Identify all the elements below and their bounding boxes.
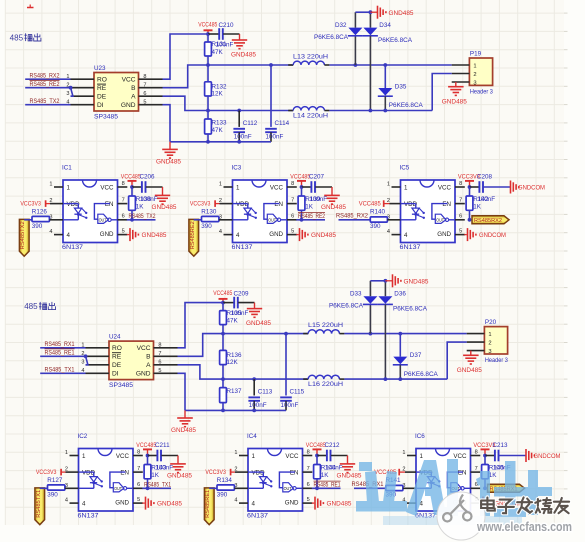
svg-text:RS485TX2: RS485TX2 [20,221,26,249]
svg-text:RS485_RX2: RS485_RX2 [30,74,61,80]
svg-text:GND485: GND485 [157,502,183,508]
junction rail/R [221,409,225,413]
transceiver U24 [81,334,177,390]
svg-text:1: 1 [49,182,52,188]
svg-text:SP3485: SP3485 [109,382,134,389]
net label RS485_TX2 [127,214,156,220]
section label 485输出 [10,33,41,42]
svg-text:7: 7 [459,197,462,203]
svg-text:47K: 47K [212,49,224,56]
svg-text:12K: 12K [227,359,239,366]
svg-text:8: 8 [122,181,125,187]
resistor R143 1K [144,456,173,491]
svg-text:VCC: VCC [137,345,151,352]
ground GND485 pin5 [296,228,336,241]
svg-text:OUT: OUT [268,218,276,223]
port RS485RE1 [204,488,217,525]
svg-text:100nF: 100nF [234,134,252,141]
svg-text:GND485: GND485 [152,205,178,211]
svg-text:VCC485: VCC485 [213,290,232,297]
optocoupler IC3 6N137 [219,165,297,252]
svg-text:VCC: VCC [116,453,130,460]
svg-text:4: 4 [49,229,52,235]
net label RS485_RE2 [25,80,70,88]
svg-text:100nF: 100nF [140,196,158,203]
wire B line left [178,334,309,357]
power VCC485 [213,290,232,305]
svg-text:2: 2 [473,72,476,78]
svg-text:RS485RE2: RS485RE2 [190,221,196,249]
TVS diode D35 P6KE6.8CA [378,63,424,112]
svg-text:7: 7 [291,197,294,203]
net label RS485_TX1 [142,482,171,488]
svg-text:1: 1 [488,332,491,338]
svg-text:OUT: OUT [99,218,107,223]
svg-text:47K: 47K [212,127,224,134]
TVS diode D36 P6KE6.8CA [378,281,428,381]
power VCC3V3 input [205,469,239,476]
wire A line right [329,110,432,112]
svg-text:D37: D37 [410,352,422,359]
wire A line left [178,365,309,379]
svg-text:8: 8 [307,449,310,455]
svg-text:VCC: VCC [270,185,284,192]
svg-text:RS485_TX2: RS485_TX2 [30,99,61,105]
svg-text:P19: P19 [470,51,482,58]
ground GND485 rail [171,410,197,434]
wire B line right [344,333,466,335]
svg-text:GND485: GND485 [156,160,182,166]
svg-text:GND: GND [437,231,451,238]
svg-text:OUT: OUT [436,218,444,223]
svg-text:4: 4 [67,232,71,239]
capacitor C212 100nF [317,442,340,461]
resistor R140 390 [370,209,392,230]
wire TVS to ground [370,279,387,283]
capacitor C209 100nF [223,290,255,317]
power VCC3V3 input [36,469,70,476]
svg-text:SP3485: SP3485 [94,114,119,121]
net label RS485_RE2 [296,213,325,220]
optocoupler IC2 6N137 [65,433,143,520]
resistor R126 390 [32,209,54,230]
svg-text:R134: R134 [217,477,233,484]
svg-text:L16 220uH: L16 220uH [308,382,343,388]
svg-text:L13 220uH: L13 220uH [293,54,328,60]
svg-text:U23: U23 [94,65,106,72]
capacitor C208 100nF [470,174,493,193]
svg-text:5: 5 [459,228,462,234]
svg-text:RS485_RE1: RS485_RE1 [314,482,342,488]
svg-text:R130: R130 [201,209,217,216]
svg-text:8: 8 [158,343,161,349]
svg-text:VCC485: VCC485 [290,174,310,181]
svg-text:VCC3V3: VCC3V3 [20,200,41,207]
svg-text:4: 4 [65,498,68,504]
capacitor C207 100nF [302,174,325,193]
svg-text:GND485: GND485 [442,100,468,106]
svg-text:6N137: 6N137 [62,244,84,251]
svg-text:1: 1 [402,450,405,456]
power VCC485 [306,442,326,457]
svg-text:1: 1 [234,450,237,456]
svg-text:RS485_RE2: RS485_RE2 [298,214,326,220]
wire GND pin down [163,105,171,142]
svg-text:DE: DE [97,94,107,101]
svg-text:100nF: 100nF [266,134,284,141]
svg-text:GND485: GND485 [142,233,168,239]
svg-text:D35: D35 [395,83,407,90]
power VCC485 input [359,200,392,207]
svg-text:4: 4 [252,501,256,508]
ground GND485 at top cap [246,303,272,328]
junction B/R [206,63,210,67]
wire ground rail [170,141,271,143]
svg-text:C207: C207 [309,174,325,181]
ground GNDCOM cap [483,181,545,194]
inductor L14 220uH [288,107,329,120]
svg-text:GND: GND [136,371,151,378]
watermark white circle logo [437,492,485,540]
svg-text:GND485: GND485 [311,233,337,239]
resistor R145 1K [482,456,511,491]
svg-text:GND485: GND485 [321,205,347,211]
power VCC3V3 [458,174,480,189]
port RS485RX2 [472,216,509,224]
svg-text:1K: 1K [321,472,330,479]
svg-text:4: 4 [82,501,86,508]
capacitor C113 100nF [248,377,272,412]
svg-text:1: 1 [67,184,71,191]
svg-text:P20: P20 [485,319,497,326]
svg-text:485: 485 [24,302,38,311]
optocoupler IC4 6N137 [234,433,312,520]
svg-text:VCC: VCC [122,77,136,84]
svg-text:5: 5 [137,497,140,503]
net label RS485_TX2 [25,99,70,105]
wire B line right [329,64,451,66]
section label 485输出 [24,302,55,311]
svg-text:R137: R137 [227,388,243,395]
svg-text:1: 1 [219,182,222,188]
ground GND485 at top cap [231,34,257,59]
svg-text:6N137: 6N137 [247,513,269,520]
svg-text:RS485RE1: RS485RE1 [205,490,211,518]
svg-text:4: 4 [387,229,390,235]
TVS diode D34 P6KE6.8CA [363,12,413,112]
svg-text:390: 390 [47,492,58,499]
transceiver U23 [66,65,162,121]
svg-text:R126: R126 [32,209,48,216]
resistor R137 [220,379,242,410]
svg-text:DE: DE [112,362,122,369]
net label RS485_RX2 [25,74,70,80]
optocoupler IC6 6N137 [402,433,480,520]
svg-text:IC3: IC3 [232,165,242,172]
svg-text:RS485_RX2: RS485_RX2 [336,213,369,219]
svg-text:VCC3V3: VCC3V3 [205,469,226,476]
svg-text:6: 6 [122,214,125,220]
svg-text:GND485: GND485 [327,502,353,508]
capacitor C211 100nF [148,442,171,461]
svg-text:3: 3 [81,360,84,366]
optocoupler IC5 6N137 [387,165,465,252]
svg-text:3: 3 [66,91,69,97]
svg-text:390: 390 [32,223,43,230]
svg-text:R133: R133 [212,120,228,127]
svg-text:GNDCOM: GNDCOM [518,185,545,191]
svg-text:DI: DI [97,102,104,109]
resistor R138 1K [129,187,158,222]
svg-text:5: 5 [307,497,310,503]
svg-text:C211: C211 [155,442,170,449]
wire ground rail [185,409,286,411]
svg-text:GND485: GND485 [171,428,197,434]
svg-text:5: 5 [291,228,294,234]
svg-text:L15 220uH: L15 220uH [308,323,343,329]
svg-text:1K: 1K [136,203,145,210]
capacitor C115 100nF [280,332,304,411]
svg-text:1: 1 [387,182,390,188]
power VCC3V3 input [190,200,224,207]
svg-text:C112: C112 [243,120,258,127]
svg-text:5: 5 [158,368,161,374]
svg-text:VCC3V3: VCC3V3 [36,469,57,476]
svg-text:8: 8 [459,181,462,187]
svg-text:GND: GND [269,231,283,238]
svg-text:6: 6 [307,482,310,488]
svg-text:RS485_TX2: RS485_TX2 [129,214,157,220]
svg-text:7: 7 [122,197,125,203]
svg-text:OUT: OUT [114,486,122,491]
svg-text:OUT: OUT [284,486,292,491]
svg-text:390: 390 [370,223,381,230]
svg-text:EN: EN [290,470,299,477]
ground GND485 header [442,82,468,106]
wire A line left [163,96,294,110]
svg-text:8: 8 [143,74,146,80]
svg-text:C212: C212 [325,442,341,449]
svg-text:R131: R131 [212,41,228,48]
wire RE to DE jog [84,354,88,364]
svg-text:47K: 47K [227,317,239,324]
svg-text:GND: GND [285,500,299,507]
power VCC3V3 [473,442,495,457]
resistor R142 1K [466,187,495,222]
svg-text:VCC485: VCC485 [198,21,217,28]
svg-text:Header 3: Header 3 [470,89,493,96]
svg-text:VCC485: VCC485 [121,174,141,181]
svg-text:U24: U24 [109,334,121,341]
svg-text:390: 390 [217,492,228,499]
svg-text:4: 4 [219,229,222,235]
svg-text:L14 220uH: L14 220uH [293,113,328,119]
ground GND485 rail [156,142,182,166]
svg-text:GND485: GND485 [389,11,415,17]
svg-text:8: 8 [137,449,140,455]
inductor L16 220uH [303,375,344,388]
svg-text:6N137: 6N137 [78,513,100,520]
resistor R132 12K [205,65,227,111]
port RS485TX1 [35,488,48,525]
net label RS485_RX1 [352,482,386,488]
svg-text:D33: D33 [350,290,362,297]
svg-text:7: 7 [307,466,310,472]
svg-text:100nF: 100nF [325,464,343,471]
svg-text:C208: C208 [477,174,493,181]
svg-text:IC5: IC5 [400,165,410,172]
svg-text:3: 3 [473,80,476,86]
svg-text:EN: EN [458,470,467,477]
svg-text:RS485_RX1: RS485_RX1 [45,342,76,348]
ground GNDCOM pin5 [480,497,522,510]
power VCC485 [121,174,141,189]
svg-text:VCC: VCC [438,185,452,192]
svg-text:7: 7 [475,466,478,472]
wire A line right [344,378,447,380]
svg-text:VCC485: VCC485 [306,442,326,449]
power VCC485 input [374,469,407,476]
svg-text:GND485: GND485 [167,473,193,479]
svg-text:6: 6 [459,214,462,220]
svg-text:6N137: 6N137 [400,244,422,251]
ground GND485 pin5 [127,228,167,241]
svg-text:4: 4 [404,232,408,239]
svg-text:1K: 1K [151,472,160,479]
svg-text:6: 6 [143,91,146,97]
svg-text:7: 7 [137,466,140,472]
svg-text:6: 6 [291,214,294,220]
net label RS485_RE1 [312,481,341,488]
svg-text:C209: C209 [234,290,250,297]
svg-text:EN: EN [442,201,451,208]
resistor R131 47K [205,34,227,65]
inductor L13 220uH [288,54,329,65]
svg-text:2: 2 [488,340,491,346]
svg-text:1: 1 [473,63,476,69]
watermark text www.elecfans.com [476,520,572,534]
net label RS485_RX2 [336,213,370,219]
net label RS485_RX1 [40,342,85,348]
svg-text:R127: R127 [47,477,63,484]
svg-text:RE: RE [112,354,122,361]
svg-text:VCC485: VCC485 [359,200,381,207]
svg-text:1K: 1K [305,203,314,210]
svg-text:B: B [146,354,151,361]
svg-text:RS485_RE1: RS485_RE1 [45,351,76,357]
connector P19 Header 3 [452,51,494,96]
ground GNDCOM pin5 [464,228,506,241]
svg-text:1K: 1K [473,203,482,210]
svg-text:RE: RE [97,85,107,92]
svg-text:B: B [131,85,136,92]
capacitor C206 100nF [132,174,155,193]
svg-text:RO: RO [97,77,107,84]
port RS485TX2 [19,219,32,256]
svg-text:3: 3 [488,349,491,355]
svg-text:GNDCOM: GNDCOM [479,233,506,239]
watermark text 电子发烧友 [481,498,569,514]
svg-text:P6KE6.8CA: P6KE6.8CA [314,34,349,41]
svg-text:8: 8 [475,449,478,455]
svg-text:EN: EN [105,201,114,208]
svg-text:GND485: GND485 [457,368,483,374]
svg-text:1K: 1K [489,472,498,479]
ground GND485 cap [315,187,346,211]
port RS485RE2 [189,219,202,256]
svg-text:GNDCOM: GNDCOM [534,454,561,460]
svg-text:4: 4 [234,498,237,504]
svg-text:GND485: GND485 [337,473,363,479]
resistor R127 390 [47,477,69,498]
ground GND485 TVS [385,274,429,287]
svg-text:5: 5 [143,100,146,106]
svg-text:GND: GND [100,231,114,238]
svg-text:6: 6 [158,360,161,366]
svg-text:D34: D34 [379,22,391,29]
net label RS485_TX1 [40,368,85,374]
resistor R144 1K [314,456,343,491]
power VCC485 [290,174,310,189]
svg-text:A: A [146,362,151,369]
wire RE to DE jog [69,86,73,96]
TVS diode D37 P6KE6.8CA [393,332,439,381]
svg-text:1: 1 [420,453,424,460]
resistor R133 [205,111,227,142]
svg-text:GND485: GND485 [246,321,272,327]
svg-text:P6KE6.8CA: P6KE6.8CA [378,37,413,44]
resistor R134 390 [217,477,239,498]
junction A/R [206,109,210,113]
svg-text:6: 6 [137,482,140,488]
wire A to header pin2 [432,74,452,111]
svg-text:IC2: IC2 [78,433,88,440]
svg-text:P6KE6.8CA: P6KE6.8CA [393,305,428,312]
svg-text:DI: DI [112,371,119,378]
svg-text:P6KE6.8CA: P6KE6.8CA [329,302,364,309]
watermark blue logo glyphs [356,459,552,525]
port RS485RX1 [488,484,525,492]
svg-text:7: 7 [158,351,161,357]
svg-text:D36: D36 [394,290,406,297]
svg-text:Header 3: Header 3 [485,357,508,364]
svg-text:C210: C210 [219,22,235,29]
svg-text:12K: 12K [212,91,224,98]
ground GND485 header [457,351,483,375]
connector P20 Header 3 [467,319,509,364]
wire B line left [163,65,294,88]
resistor R135 47K [220,303,242,334]
ground GND485 TVS [370,6,414,19]
svg-text:IC4: IC4 [247,433,257,440]
TVS diode D33 P6KE6.8CA [329,281,378,336]
junction rail/R [206,140,210,144]
svg-text:1: 1 [236,184,240,191]
ground GND485 pin5 [312,497,352,510]
resistor R141 390 [386,477,408,498]
wire VCC pin to rail [163,34,209,79]
svg-text:P6KE6.8CA: P6KE6.8CA [389,102,424,109]
svg-text:100nF: 100nF [249,402,267,409]
svg-text:VCC485: VCC485 [136,442,156,449]
stray red mark top left [27,5,34,8]
svg-text:EN: EN [120,470,129,477]
svg-text:1: 1 [404,184,408,191]
svg-text:100nF: 100nF [309,196,327,203]
svg-text:P6KE6.8CA: P6KE6.8CA [404,371,439,378]
power VCC485 [198,21,217,35]
svg-text:R132: R132 [212,83,228,90]
